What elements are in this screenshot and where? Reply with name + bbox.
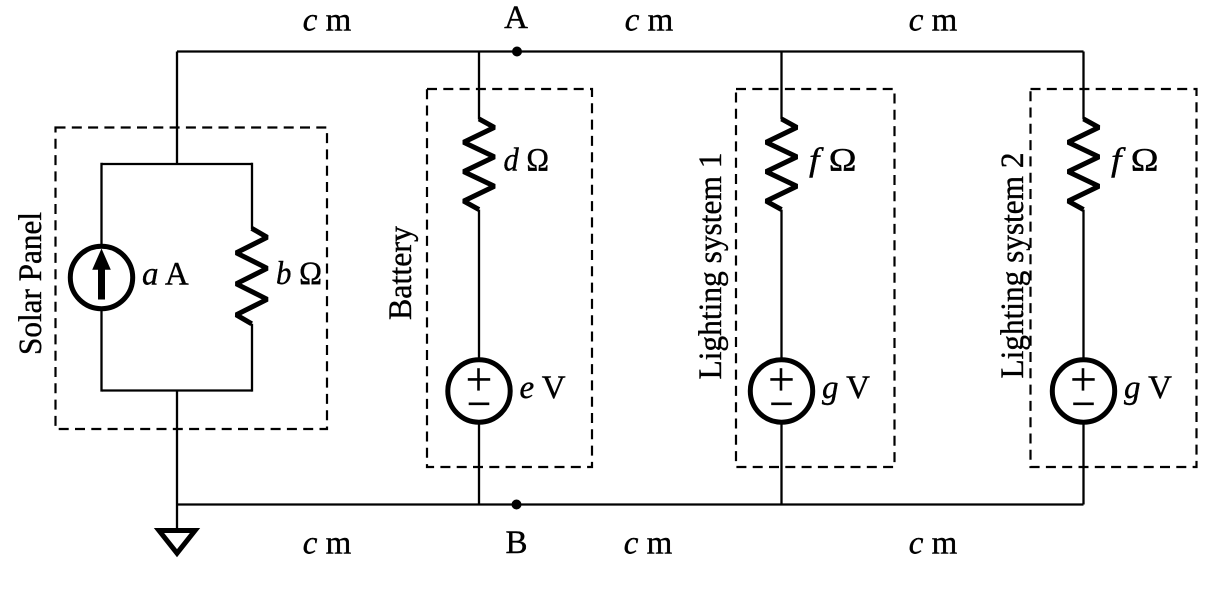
- wire: Battery top lead: [478, 52, 480, 120]
- resistor f zigzag: [1068, 119, 1099, 210]
- plus sign: [1072, 378, 1094, 381]
- wire: solar panel bottom lead: [176, 391, 178, 505]
- minus sign: [771, 402, 792, 405]
- resistor f zigzag: [766, 119, 797, 210]
- svg-text:B: B: [505, 525, 527, 561]
- svg-text:c m: c m: [625, 3, 674, 39]
- svg-text:Lighting system 1: Lighting system 1: [693, 153, 729, 380]
- svg-text:Lighting system 2: Lighting system 2: [995, 153, 1031, 379]
- voltage source circle (g V): [1052, 360, 1114, 422]
- wire: current source upper lead: [100, 163, 102, 246]
- svg-text:c m: c m: [624, 525, 673, 561]
- wire: Lighting system 2 middle lead: [1082, 210, 1084, 360]
- svg-text:d Ω: d Ω: [504, 143, 550, 179]
- voltage source circle (e V): [448, 360, 510, 422]
- svg-text:a A: a A: [142, 257, 189, 293]
- svg-text:e V: e V: [520, 370, 566, 406]
- svg-text:g V: g V: [1124, 370, 1172, 406]
- ground symbol: [159, 531, 195, 554]
- svg-text:f Ω: f Ω: [1111, 143, 1159, 179]
- svg-text:c m: c m: [909, 525, 958, 561]
- wire: Lighting system 2 top lead: [1082, 52, 1084, 120]
- wire: Battery bottom lead: [478, 422, 480, 505]
- svg-text:c m: c m: [909, 3, 958, 39]
- wire: top bus from solar panel to lighting system 2: [177, 50, 1084, 52]
- wire: Lighting system 2 bottom lead: [1082, 422, 1084, 505]
- resistor d zigzag: [464, 119, 495, 210]
- wire: Battery middle lead: [478, 210, 480, 360]
- wire: bottom bus from solar panel to lighting system 2: [177, 503, 1084, 505]
- wire: resistor b lower lead: [251, 324, 253, 392]
- svg-text:b Ω: b Ω: [276, 256, 322, 292]
- wire: Lighting system 1 middle lead: [780, 210, 782, 360]
- wire: resistor b upper lead: [251, 163, 253, 229]
- svg-text:c m: c m: [303, 525, 352, 561]
- svg-text:c m: c m: [303, 3, 352, 39]
- wire: solar panel top lead: [176, 52, 178, 165]
- wire: ground lead: [176, 505, 178, 529]
- node B junction dot: [512, 500, 522, 510]
- dashed box: Solar Panel block: [56, 128, 328, 430]
- minus sign: [469, 402, 490, 405]
- svg-text:f Ω: f Ω: [809, 143, 857, 179]
- node A junction dot: [512, 47, 522, 57]
- wire: Lighting system 1 top lead: [780, 52, 782, 120]
- voltage source circle (g V): [750, 360, 812, 422]
- svg-text:g V: g V: [822, 370, 870, 406]
- plus sign: [468, 378, 490, 381]
- wire: current source lower lead: [100, 309, 102, 392]
- resistor b zigzag: [236, 228, 267, 323]
- wire: solar panel inner loop top: [102, 163, 252, 165]
- wire: Lighting system 1 bottom lead: [780, 422, 782, 505]
- plus sign: [770, 378, 792, 381]
- dashed box: Battery block: [427, 89, 592, 467]
- current source arrow: [98, 268, 105, 300]
- svg-text:Solar Panel: Solar Panel: [13, 212, 49, 355]
- dashed box: Lighting system 2 block: [1031, 89, 1197, 467]
- svg-text:A: A: [504, 0, 528, 36]
- dashed box: Lighting system 1 block: [736, 89, 895, 467]
- wire: solar panel inner loop bottom: [102, 389, 252, 391]
- minus sign: [1073, 402, 1094, 405]
- current source I1 circle: [70, 246, 132, 308]
- svg-text:Battery: Battery: [383, 226, 419, 320]
